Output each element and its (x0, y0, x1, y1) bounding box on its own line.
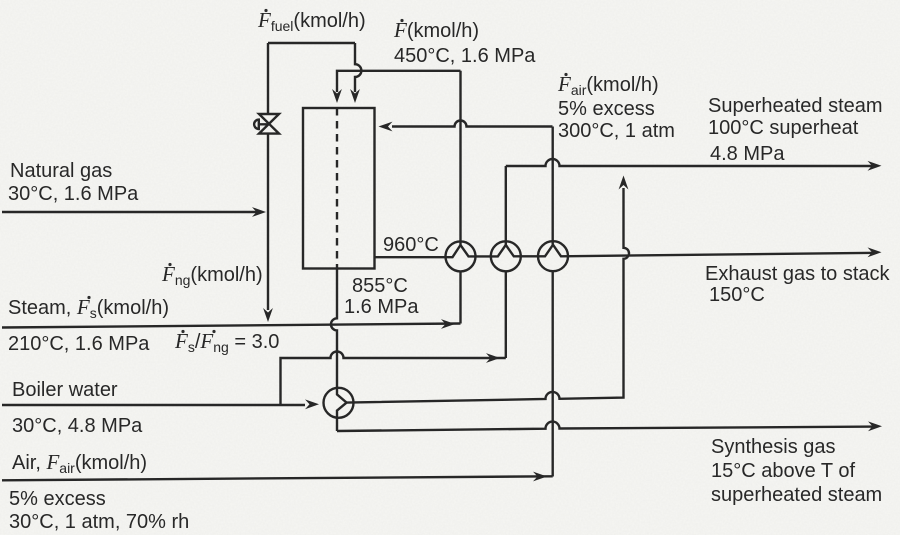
wire: furnace exhaust gas line with chevrons through HX1 HX2 HX3 (375, 245, 882, 257)
svg-text:100°C superheat: 100°C superheat (708, 117, 859, 139)
svg-text:450°C, 1.6 MPa: 450°C, 1.6 MPa (394, 45, 536, 67)
svg-text:Synthesis gas: Synthesis gas (711, 436, 836, 458)
wire: steam riser through HX2 (505, 166, 507, 358)
svg-text:Boiler water: Boiler water (12, 379, 118, 401)
reformer tube (dashed line) (336, 108, 338, 269)
svg-text:5% excess: 5% excess (9, 488, 106, 510)
wire: fuel downcomer into furnace (hops feed line) (350, 43, 361, 103)
svg-text:30°C, 1 atm, 70% rh: 30°C, 1 atm, 70% rh (9, 511, 189, 533)
label: F(kmol/h) (393, 18, 479, 42)
svg-text:960°C: 960°C (383, 234, 439, 256)
label: F_ng(kmol/h) (161, 262, 263, 288)
wire: superheated steam header (hops air riser) (506, 159, 882, 171)
svg-text:300°C, 1 atm: 300°C, 1 atm (558, 120, 675, 142)
wire: natural gas riser / fuel branch (through valve, down to steam line) (263, 43, 273, 322)
wire: preheated air into furnace (hops feed riser) (379, 121, 553, 132)
svg-text:210°C, 1.6 MPa: 210°C, 1.6 MPa (8, 333, 150, 355)
HX1 circle (feed preheat) (446, 241, 476, 271)
wire: boiler water branch to HX2 (hops syngas downcomer) (281, 352, 506, 405)
wire: air riser through HX3 (552, 127, 554, 477)
HX3 circle (air preheat) (538, 241, 568, 271)
svg-text:superheated steam: superheated steam (711, 484, 882, 506)
svg-text:Natural gas: Natural gas (10, 160, 112, 182)
wire: mixed feed riser through HX1 (459, 71, 461, 324)
valve (on fuel branch) (254, 114, 279, 134)
wire: synthesis gas product line (hops air riser) (337, 421, 882, 431)
svg-text:F(kmol/h): F(kmol/h) (393, 18, 479, 42)
label: F_fuel(kmol/h) (257, 8, 366, 34)
wire: syngas downcomer from reformer (chevron through boiler HX) (331, 269, 347, 432)
label: F_air(kmol/h) (557, 72, 659, 98)
HX2 circle (steam superheater) (491, 241, 521, 271)
svg-text:855°C: 855°C (352, 275, 408, 297)
wire: fuel gas top run (268, 42, 355, 44)
svg-text:30°C, 1.6 MPa: 30°C, 1.6 MPa (8, 183, 139, 205)
svg-text:Air, Fair(kmol/h): Air, Fair(kmol/h) (12, 450, 147, 476)
wire: steam from syngas cooler joining header (hops air riser and exhaust) (347, 176, 629, 403)
label: Steam Fs(kmol/h) (8, 295, 169, 321)
svg-text:30°C, 4.8 MPa: 30°C, 4.8 MPa (12, 415, 143, 437)
boiler HX circle (syngas cooler / steam generator) (324, 388, 354, 418)
wire: preheated feed to reformer top (332, 71, 460, 103)
wire: air supply line (2, 472, 553, 482)
svg-text:Exhaust gas to stack: Exhaust gas to stack (705, 263, 891, 285)
wire: natural gas feed line (2, 207, 266, 217)
svg-text:15°C above T of: 15°C above T of (711, 460, 855, 482)
wire: boiler feedwater line (2, 399, 319, 409)
svg-text:1.6 MPa: 1.6 MPa (344, 296, 419, 318)
wire: steam feed line (hops syngas downcomer) (2, 319, 461, 329)
svg-text:4.8 MPa: 4.8 MPa (710, 143, 785, 165)
reformer furnace (reactor) (303, 108, 375, 269)
label: Fs/Fng = 3.0 (174, 329, 279, 355)
svg-text:5% excess: 5% excess (558, 98, 655, 120)
svg-text:Superheated steam: Superheated steam (708, 95, 883, 117)
svg-text:150°C: 150°C (709, 284, 765, 306)
